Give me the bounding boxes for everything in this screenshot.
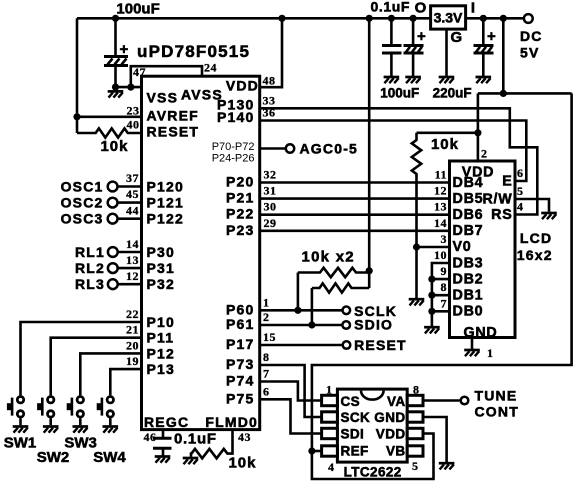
svg-text:3: 3 <box>441 232 448 246</box>
svg-text:2: 2 <box>481 147 488 161</box>
node junction dot SCLK pull-up <box>294 307 301 314</box>
ground at FLMD0 resistor <box>183 458 199 464</box>
node junction dot V0 <box>413 243 420 250</box>
wire regulator G to ground <box>445 29 448 76</box>
svg-text:OSC3: OSC3 <box>61 211 104 227</box>
node junction dot C1 bottom <box>112 84 119 91</box>
wire LTC VA to TUNE CONT <box>423 399 460 402</box>
svg-text:8: 8 <box>263 350 270 364</box>
svg-text:RL2: RL2 <box>75 260 105 276</box>
node junction dot 5V rail corner <box>500 90 507 97</box>
svg-text:16x2: 16x2 <box>517 247 553 263</box>
svg-text:P24-P26: P24-P26 <box>212 153 255 165</box>
svg-text:uPD78F0515: uPD78F0515 <box>137 42 250 61</box>
node junction dot 0.1uF cap tap <box>388 15 395 22</box>
svg-text:4: 4 <box>328 460 335 474</box>
node junction dot 10kx2 rail tap <box>366 15 373 22</box>
svg-text:P17: P17 <box>226 336 255 352</box>
switch SW4 <box>93 397 126 467</box>
svg-text:3.3V: 3.3V <box>434 10 463 26</box>
node junction dot VSS bracket <box>127 84 134 91</box>
svg-text:DB7: DB7 <box>453 223 484 239</box>
svg-text:10k: 10k <box>101 138 129 155</box>
svg-text:8: 8 <box>441 280 448 294</box>
svg-text:VB: VB <box>386 444 406 459</box>
svg-text:36: 36 <box>263 106 276 120</box>
svg-text:48: 48 <box>263 74 276 88</box>
ground below C1 <box>108 91 124 97</box>
wire LCD DB3 chain <box>432 263 450 326</box>
svg-text:SW1: SW1 <box>4 435 37 452</box>
svg-text:P75: P75 <box>226 390 255 406</box>
svg-text:GND: GND <box>374 410 405 425</box>
wire 5V rail right <box>503 92 571 95</box>
svg-text:24: 24 <box>204 61 217 75</box>
svg-text:P121: P121 <box>147 195 185 211</box>
wire P75 to LTC SDI <box>260 399 322 433</box>
terminal DC 5V <box>524 14 533 23</box>
svg-text:E: E <box>502 174 512 190</box>
svg-text:P11: P11 <box>147 330 175 346</box>
switch SW2 <box>37 397 70 467</box>
svg-text:DB1: DB1 <box>453 288 484 304</box>
svg-text:P21: P21 <box>226 190 255 206</box>
IC U1 uPD78F0515 body <box>142 76 260 429</box>
svg-text:SCK: SCK <box>341 410 371 425</box>
svg-text:10k x2: 10k x2 <box>302 249 355 266</box>
ground at LCD RW <box>541 213 557 219</box>
node junction dot 10kx2 right <box>366 267 373 274</box>
wire LCD DB2 <box>432 278 450 281</box>
wire P22 to LCD DB6 <box>260 213 450 216</box>
capacitor C1 100uF electrolytic top-left <box>104 18 129 87</box>
svg-text:32: 32 <box>264 168 277 182</box>
svg-text:21: 21 <box>126 323 139 337</box>
terminal OSC1 <box>61 171 142 195</box>
resistor R4 10k LCD contrast <box>412 133 421 247</box>
wire 5V feed to LTC REF and VDD <box>312 93 572 479</box>
svg-text:SW2: SW2 <box>37 449 70 466</box>
svg-text:11: 11 <box>435 168 447 182</box>
svg-text:1: 1 <box>263 295 270 309</box>
svg-text:P122: P122 <box>147 211 185 227</box>
svg-text:45: 45 <box>126 187 139 201</box>
wire P21 to LCD DB5 <box>260 197 450 200</box>
node junction dot LTC REF tap <box>308 447 315 454</box>
svg-text:10: 10 <box>434 248 447 262</box>
wire P11 to SW2 <box>51 338 142 396</box>
wire P130 to LCD RS <box>260 108 538 214</box>
pin FLMD0 stub 43 and resistor 10k <box>191 430 233 459</box>
wire 5V down <box>502 18 505 93</box>
svg-text:2: 2 <box>263 310 270 324</box>
svg-text:29: 29 <box>264 216 277 230</box>
svg-text:+: + <box>120 41 129 58</box>
svg-text:OSC1: OSC1 <box>61 179 104 195</box>
svg-text:P61: P61 <box>226 316 255 332</box>
ground at LCD GND <box>464 350 480 356</box>
wire 3.3V rail down to pull-ups <box>368 18 371 288</box>
pin box CS <box>322 395 338 405</box>
svg-text:AVREF: AVREF <box>147 108 199 124</box>
node junction dot 220uF tap <box>480 15 487 22</box>
svg-text:RL1: RL1 <box>75 244 105 260</box>
node junction dot 100uF cap tap <box>410 15 417 22</box>
wire R3 to SDIO line <box>311 288 314 325</box>
resistor R2 10k SCLK pull-up <box>298 268 369 277</box>
svg-text:P20: P20 <box>226 174 255 190</box>
svg-text:P73: P73 <box>226 356 255 372</box>
terminal RL3 <box>75 269 142 292</box>
ground below REGC cap <box>155 457 171 463</box>
svg-text:0.1uF: 0.1uF <box>371 0 411 15</box>
svg-text:P22: P22 <box>226 206 255 222</box>
resistor R3 10k SDIO pull-up <box>312 283 369 292</box>
wire LCD DB1 <box>432 294 450 297</box>
node junction dot DB2 <box>428 276 435 283</box>
svg-text:44: 44 <box>126 203 139 217</box>
svg-text:14: 14 <box>434 216 447 230</box>
svg-text:P60: P60 <box>226 301 255 317</box>
terminal RL1 <box>75 237 142 260</box>
svg-text:CONT: CONT <box>475 404 519 420</box>
svg-text:12: 12 <box>126 269 139 283</box>
wire V0 to ground <box>415 247 418 298</box>
svg-text:P23: P23 <box>226 222 255 238</box>
svg-text:6: 6 <box>517 166 524 180</box>
pin REGC stub 46 <box>162 430 165 437</box>
svg-text:P70-P72: P70-P72 <box>212 141 255 153</box>
svg-text:RL3: RL3 <box>75 276 105 292</box>
IC U3 LTC2622 body <box>337 389 407 462</box>
svg-text:TUNE: TUNE <box>475 388 518 404</box>
wire P10 to SW1 <box>21 322 142 395</box>
ground at V0 <box>409 299 425 305</box>
svg-text:37: 37 <box>126 171 139 185</box>
svg-text:20: 20 <box>126 338 139 352</box>
node junction dot 5V drop <box>500 15 507 22</box>
svg-text:DB2: DB2 <box>453 271 484 287</box>
wire regulator input rail <box>466 17 524 20</box>
wire AVREF pin 23 <box>77 116 143 119</box>
svg-text:9: 9 <box>441 264 448 278</box>
svg-text:DB4: DB4 <box>453 175 484 191</box>
svg-text:14: 14 <box>126 237 139 251</box>
wire VSS pin 47 to ground node <box>116 86 143 89</box>
node junction dot VDD pin48 tap <box>278 15 285 22</box>
svg-text:AGC0-5: AGC0-5 <box>300 141 359 157</box>
terminal TUNE CONT <box>461 397 469 405</box>
svg-text:O: O <box>415 0 427 17</box>
svg-text:OSC2: OSC2 <box>61 195 104 211</box>
svg-text:23: 23 <box>127 104 140 118</box>
svg-text:220uF: 220uF <box>433 86 472 101</box>
capacitor C3 100uF electrolytic <box>404 18 427 76</box>
svg-text:SW3: SW3 <box>64 435 97 452</box>
svg-text:P12: P12 <box>147 345 176 361</box>
svg-text:7: 7 <box>263 367 270 381</box>
svg-text:13: 13 <box>434 200 447 214</box>
terminal SDIO <box>342 321 350 329</box>
svg-text:30: 30 <box>264 200 277 214</box>
wire LCD DB0 <box>432 310 450 313</box>
terminal AGC0-5 <box>260 141 358 157</box>
svg-text:RESET: RESET <box>354 337 407 353</box>
capacitor C2 0.1uF <box>382 18 402 76</box>
svg-text:6: 6 <box>263 384 270 398</box>
wire P12 to SW3 <box>80 353 141 395</box>
svg-text:P10: P10 <box>147 314 176 330</box>
wire LCD RW to ground <box>515 199 549 212</box>
pin box GND <box>407 412 423 422</box>
ground below C3 <box>405 77 421 83</box>
switch SW1 <box>4 397 37 452</box>
node junction dot VDD drop <box>474 129 481 136</box>
node junction dot DB1 <box>428 292 435 299</box>
svg-text:SW4: SW4 <box>93 449 126 466</box>
svg-text:R/W: R/W <box>482 192 512 208</box>
node junction dot AVREF tap <box>73 113 80 120</box>
svg-text:P30: P30 <box>147 244 176 260</box>
svg-text:1: 1 <box>487 346 494 360</box>
node junction dot SDIO pull-up <box>308 321 315 328</box>
svg-text:1: 1 <box>326 383 333 397</box>
terminal OSC3 <box>61 203 142 226</box>
wire P17 to RESET <box>260 344 342 347</box>
svg-text:31: 31 <box>264 184 277 198</box>
pin box REF <box>322 446 338 456</box>
wire R4 top to VDD drop <box>417 132 478 135</box>
svg-text:SDIO: SDIO <box>354 316 393 332</box>
pin box SDI <box>322 428 338 438</box>
wire P74 to LTC CS <box>260 382 322 401</box>
LCD module body <box>450 161 516 338</box>
svg-text:5: 5 <box>412 459 419 473</box>
svg-text:P13: P13 <box>147 361 176 377</box>
ground below G <box>439 77 455 83</box>
ground below C2 <box>384 77 400 83</box>
svg-text:22: 22 <box>126 307 139 321</box>
svg-text:P120: P120 <box>147 179 185 195</box>
wire 3.3V top rail <box>77 17 431 20</box>
pin box SCK <box>322 412 338 422</box>
svg-text:VDD: VDD <box>376 427 406 442</box>
svg-text:DB5: DB5 <box>453 191 484 207</box>
wire AVREF/RESET pull-up vertical <box>76 18 79 133</box>
svg-text:LTC2622: LTC2622 <box>344 465 402 480</box>
svg-text:LCD: LCD <box>520 230 552 246</box>
svg-text:100uF: 100uF <box>380 86 419 101</box>
wire P140 to LCD E <box>260 121 527 182</box>
resistor 10k RESET pull-up <box>77 128 143 137</box>
svg-text:P31: P31 <box>147 260 176 276</box>
svg-text:19: 19 <box>126 354 139 368</box>
svg-text:RESET: RESET <box>147 124 200 140</box>
capacitor C4 220uF electrolytic <box>474 18 497 76</box>
node junction dot 100uF top-left tap <box>112 15 119 22</box>
svg-text:+: + <box>417 28 426 45</box>
wire VSS/AVSS pin bracket <box>131 66 202 87</box>
wire V0 pin <box>417 246 450 249</box>
svg-text:CS: CS <box>341 394 361 409</box>
IC U3 notch <box>361 391 384 400</box>
wire P61 to SDIO <box>260 324 342 327</box>
svg-text:VSS: VSS <box>147 90 179 106</box>
svg-text:P32: P32 <box>147 276 176 292</box>
svg-text:REGC: REGC <box>144 414 189 430</box>
svg-text:DB6: DB6 <box>453 207 484 223</box>
svg-text:GND: GND <box>463 325 497 341</box>
svg-text:10k: 10k <box>229 455 257 472</box>
svg-text:DB3: DB3 <box>453 255 484 271</box>
ground at LTC GND <box>439 463 455 469</box>
svg-text:I: I <box>471 0 475 17</box>
regulator U2 3.3V box <box>431 6 466 29</box>
svg-text:5: 5 <box>517 184 524 198</box>
svg-text:+: + <box>487 28 496 45</box>
svg-text:G: G <box>451 29 463 46</box>
svg-text:12: 12 <box>434 184 447 198</box>
svg-text:VA: VA <box>387 394 406 409</box>
svg-text:43: 43 <box>238 430 251 444</box>
svg-text:8: 8 <box>413 383 420 397</box>
wire P13 to SW4 <box>110 369 141 395</box>
svg-text:13: 13 <box>126 253 139 267</box>
wire P73 to LTC SCK <box>260 365 322 417</box>
terminal SCLK <box>343 307 351 315</box>
svg-text:FLMD0: FLMD0 <box>205 414 258 430</box>
svg-text:RS: RS <box>491 207 512 223</box>
svg-text:10k: 10k <box>431 136 459 153</box>
wire VDD pin 48 to rail <box>260 18 282 87</box>
pin box VDD <box>407 428 423 438</box>
svg-text:5V: 5V <box>520 45 540 61</box>
wire LCD VDD pin 2 <box>478 93 503 161</box>
wire P20 to LCD DB4 <box>260 181 450 184</box>
svg-text:7: 7 <box>441 296 448 310</box>
wire LTC REF pin <box>312 450 322 453</box>
svg-text:REF: REF <box>341 444 369 459</box>
ground below C4 <box>476 77 492 83</box>
svg-text:100uF: 100uF <box>116 1 159 18</box>
svg-text:P74: P74 <box>226 373 255 389</box>
svg-text:40: 40 <box>127 118 140 132</box>
wire R2 to SCLK line <box>297 273 300 311</box>
svg-text:DB0: DB0 <box>453 304 484 320</box>
terminal OSC2 <box>61 187 142 210</box>
svg-text:4: 4 <box>517 200 524 214</box>
wire LCD GND to ground <box>471 338 474 350</box>
pin box VB <box>407 446 423 456</box>
ground at DB3-DB0 chain <box>424 327 440 333</box>
svg-text:SDI: SDI <box>341 427 365 442</box>
wire P60 to SCLK <box>260 309 342 312</box>
capacitor REGC 0.1uF <box>153 438 172 455</box>
wire P23 to LCD DB7 <box>260 230 450 233</box>
terminal RL2 <box>75 253 142 276</box>
terminal RESET <box>343 341 351 349</box>
svg-text:15: 15 <box>263 330 276 344</box>
svg-text:P140: P140 <box>217 109 255 125</box>
svg-text:V0: V0 <box>453 239 472 255</box>
switch SW3 <box>64 397 97 452</box>
svg-text:0.1uF: 0.1uF <box>174 431 217 448</box>
svg-text:DC: DC <box>520 28 543 44</box>
svg-text:VDD: VDD <box>226 78 259 94</box>
pin box VA <box>407 395 423 405</box>
wire LTC GND to ground <box>423 417 447 462</box>
node junction dot DB0 <box>428 308 435 315</box>
